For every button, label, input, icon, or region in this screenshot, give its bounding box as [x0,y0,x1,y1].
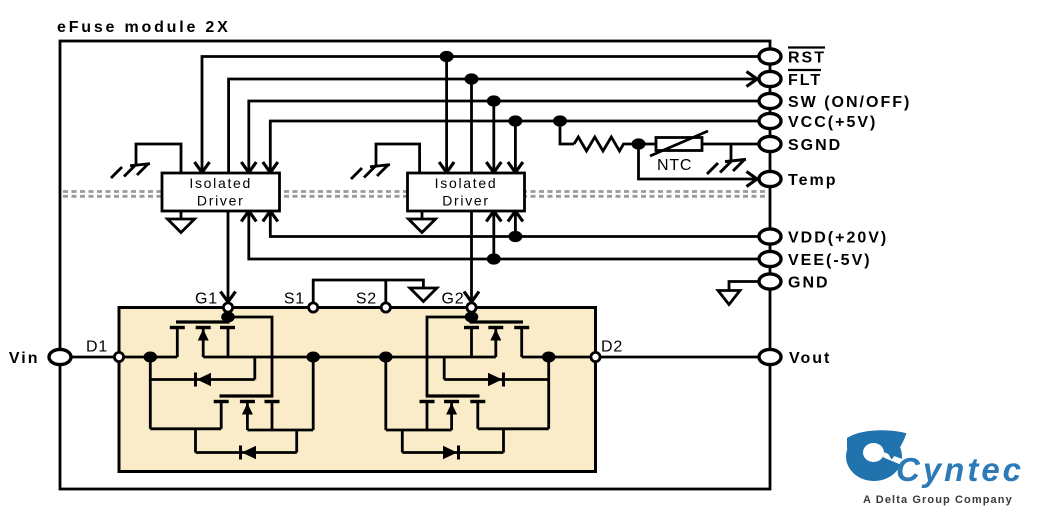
svg-text:NTC: NTC [657,157,692,174]
svg-text:D1: D1 [86,339,108,356]
svg-text:A Delta Group Company: A Delta Group Company [863,494,1013,506]
terminal RST [759,49,781,64]
arrow RST into driver U1 [195,162,210,173]
wire D1 rail [123,356,177,359]
chassis ground driver U1 [111,164,150,178]
wire Q2 drain link [478,427,549,430]
label RST [788,48,826,67]
wire source rail S1 S2 [203,356,496,359]
chassis ground driver U2 [351,165,390,179]
node G2 gate junction [465,312,479,323]
svg-text:Isolated: Isolated [189,175,252,191]
pin G1 [223,303,232,312]
wire to NTC [631,143,656,146]
pin D2 [591,352,600,361]
wire S2 riser [384,280,387,305]
transistor Q2 upper MOSFET [464,311,529,357]
svg-text:Vin: Vin [9,350,40,367]
ground source signal ground [410,288,437,302]
svg-text:Driver: Driver [442,193,490,209]
driver U2 Isolated Driver [408,173,525,211]
wire G1 to lower gate [228,317,272,396]
power block module body [119,308,596,472]
wire driver U2 chassis ground [376,144,420,173]
logo Cyntec icon [846,430,909,481]
svg-text:Isolated: Isolated [435,175,498,191]
arrow VDD into driver U2 [508,211,523,222]
driver U1 Isolated Driver [162,173,280,211]
arrow VEE into driver U2 [486,211,501,222]
svg-text:Vout: Vout [789,350,831,367]
svg-text:GND: GND [788,275,830,292]
svg-text:S2: S2 [356,291,377,308]
wire Q1 drain link [150,427,221,430]
wire GND terminal to ground [729,282,759,291]
svg-text:D2: D2 [601,339,623,356]
terminal VEE [759,251,781,266]
node SGND junction [632,138,646,149]
node VCC junction driver U2 [508,115,522,126]
ground GND symbol [718,291,740,305]
wire VCC net [270,121,759,170]
resistor R1 [574,137,631,151]
arrow FLT to terminal [747,72,758,87]
terminal Vin [49,349,71,364]
pin G2 [467,303,476,312]
svg-text:FLT: FLT [788,72,822,89]
wire FLT net [229,79,757,173]
wire S2 internal riser [384,360,387,430]
node SW junction [487,95,501,106]
terminal SGND [759,136,781,151]
transistor Q2 lower MOSFET [420,396,486,430]
arrow G1 [221,292,236,303]
svg-text:G1: G1 [195,291,218,308]
arrow G2 [464,292,479,303]
pin S2 [381,303,390,312]
svg-text:SW (ON/OFF): SW (ON/OFF) [788,94,911,111]
arrow VCC into driver U1 [263,162,278,173]
arrow VCC into driver U2 [508,162,523,173]
module boundary box [60,41,770,489]
wire RST net [202,57,759,171]
node S2 junction [379,352,393,363]
wire Temp net [639,144,758,179]
node VCC junction NTC branch [553,115,567,126]
svg-text:VCC(+5V): VCC(+5V) [788,114,877,131]
wire VDD net [270,213,759,237]
svg-text:Cyntec: Cyntec [896,451,1024,488]
wire D2 to Vout [600,356,759,359]
svg-text:S1: S1 [284,291,305,308]
svg-text:VEE(-5V): VEE(-5V) [788,252,872,269]
wire VEE net [249,213,759,259]
arrow RST into driver U2 [439,162,454,173]
wire D2 rail [522,356,596,359]
transistor Q1 upper MOSFET [170,311,235,357]
terminal Temp [759,171,781,186]
wire G1 gate drive [227,211,230,305]
ground driver U2 signal ground [409,211,436,233]
arrow SW into driver U1 [241,162,256,173]
chassis ground right [707,159,746,174]
arrow Temp to terminal [747,172,758,187]
wire SW net [249,101,759,170]
wire NTC to SGND terminal [702,143,759,146]
wire Q1 source link [247,429,313,432]
terminal VCC [759,113,781,128]
svg-text:VDD(+20V): VDD(+20V) [788,230,888,247]
wire G2 gate drive [470,211,473,305]
terminal VDD [759,229,781,244]
isolation barrier dashed line lower [63,195,766,198]
ground driver U1 signal ground [168,211,195,233]
diode Q2 upper body diode [444,357,549,429]
terminal SW [759,93,781,108]
svg-text:SGND: SGND [788,137,842,154]
transistor Q1 lower MOSFET [214,396,280,430]
node VDD junction [508,231,522,242]
wire to chassis ground right [730,144,733,161]
svg-text:eFuse module 2X: eFuse module 2X [57,19,231,36]
diode Q1 upper body diode [150,357,255,429]
pin S1 [309,303,318,312]
terminal Vout [759,349,781,364]
diode Q1 lower body diode [196,429,297,460]
wire driver U1 chassis ground [136,144,181,173]
wire S1 internal riser [312,360,315,430]
node FLT junction [465,73,479,84]
terminal GND [759,274,781,289]
svg-text:G2: G2 [442,291,465,308]
node RST junction [440,51,454,62]
label FLT [788,70,822,89]
arrow VEE into driver U1 [241,211,256,222]
diode Q2 lower body diode [402,429,503,460]
arrow VDD into driver U1 [263,211,278,222]
thermistor NTC [650,131,708,156]
pin D1 [114,352,123,361]
arrow SW into driver U2 [486,162,501,173]
node D2 junction [542,352,556,363]
wire Q2 source link [386,429,452,432]
node VEE junction [487,253,501,264]
svg-text:RST: RST [788,50,826,67]
terminal FLT [759,71,781,86]
svg-text:Driver: Driver [197,193,245,209]
isolation barrier dashed line upper [63,190,766,193]
node G1 gate junction [221,312,235,323]
svg-text:Temp: Temp [788,172,837,189]
wire Vin to D1 [68,356,119,359]
wire VCC to resistor [560,121,574,144]
wire G2 to lower gate [427,317,472,396]
wire S1 S2 source bridge [313,280,423,305]
node S1 junction [306,352,320,363]
node D1 junction [144,352,158,363]
